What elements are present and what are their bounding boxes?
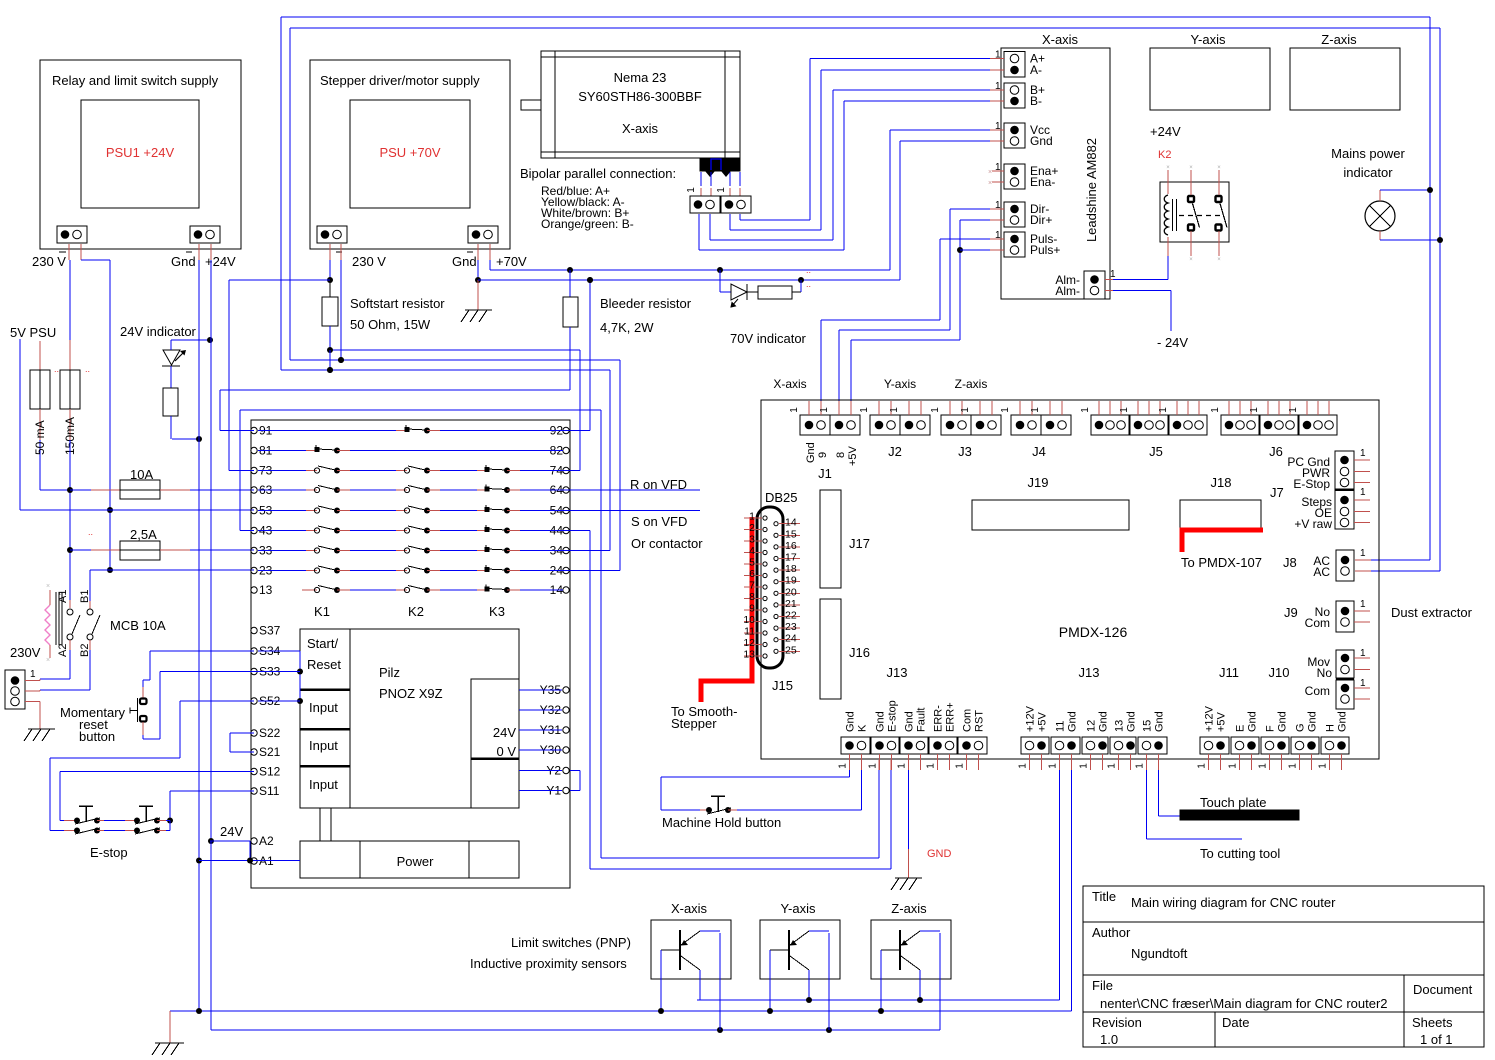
svg-text:Nema 23: Nema 23 [614, 70, 667, 85]
terminal Y32 [563, 707, 569, 713]
relay unit outer box [251, 420, 570, 888]
svg-text:20: 20 [785, 586, 797, 598]
wire fuse chain down [69, 440, 71, 600]
svg-text:1: 1 [1360, 648, 1366, 659]
wire motor B- to driver [698, 214, 700, 250]
svg-text:15: 15 [1142, 720, 1154, 732]
svg-text:25: 25 [785, 644, 797, 656]
svg-text:H: H [1325, 724, 1337, 732]
svg-text:230V: 230V [10, 645, 41, 660]
resistor 70V indicator [758, 286, 792, 299]
LED 24V indicator [163, 350, 180, 365]
wire collector rail +24V [210, 841, 212, 1030]
svg-text:×: × [1189, 257, 1193, 263]
terminal B+ [1010, 86, 1019, 95]
svg-text:1: 1 [686, 187, 697, 193]
svg-text:GND: GND [927, 848, 952, 860]
svg-text:Gnd: Gnd [1126, 711, 1138, 732]
svg-text:1: 1 [716, 187, 727, 193]
svg-text:J8: J8 [1283, 555, 1297, 570]
svg-text:1: 1 [1048, 763, 1059, 769]
wire 5VPSU to row53 [20, 509, 254, 511]
wire row23 right up [563, 570, 620, 572]
wire row91 left to bleeder net [219, 390, 221, 431]
connector J7 block [1335, 488, 1354, 491]
svg-text:Com: Com [1305, 684, 1330, 698]
svg-text:Gnd: Gnd [1277, 711, 1289, 732]
driver Leadshine AM882 box [1001, 48, 1110, 299]
svg-text:+70V: +70V [496, 254, 527, 269]
fuse 50mA [39, 341, 41, 370]
wire 230V top rail 1 [281, 16, 1430, 18]
svg-text:E-Stop: E-Stop [1293, 477, 1330, 491]
stub J1 pins [808, 401, 810, 415]
svg-text:J16: J16 [849, 645, 870, 660]
svg-text:ERR-: ERR- [933, 705, 945, 732]
svg-text:B2: B2 [79, 644, 91, 657]
connector J17 box [820, 490, 841, 588]
thick red cable to PMDX-107 [1182, 530, 1263, 552]
svg-text:11: 11 [744, 626, 755, 638]
svg-text:DB25: DB25 [765, 490, 798, 505]
connector J1b block [830, 415, 860, 435]
connector J2b block [900, 415, 930, 435]
sensor box X-axis [651, 920, 731, 979]
stub J3 pins [949, 401, 951, 415]
svg-text:Softstart resistor: Softstart resistor [350, 296, 445, 311]
svg-text:12: 12 [743, 637, 755, 649]
wire collector Y-axis [808, 970, 810, 1000]
MCB pole B [87, 609, 93, 615]
svg-text:Alm-: Alm- [1055, 284, 1080, 298]
connector J11 block H/Gnd [1321, 737, 1349, 754]
svg-text:J7: J7 [1270, 485, 1284, 500]
terminal PSU2 230V in [317, 226, 347, 243]
connector J9 block [1336, 601, 1354, 632]
svg-text:Gnd: Gnd [1098, 711, 1110, 732]
svg-text:Com: Com [962, 709, 974, 732]
svg-text:J5: J5 [1149, 444, 1163, 459]
terminal PSU2 70V out [468, 226, 498, 243]
terminal Ena- [1010, 178, 1019, 187]
svg-text:1: 1 [1158, 407, 1169, 413]
connector 3pin block [1299, 415, 1337, 435]
svg-text:24V indicator: 24V indicator [120, 324, 197, 339]
stepper motor Nema 23 X-axis [541, 51, 740, 158]
svg-text:Gnd: Gnd [1247, 711, 1259, 732]
wire collector Z-axis [919, 970, 921, 1000]
connector 3pin block [1260, 415, 1298, 435]
terminal driver block [1004, 83, 1025, 108]
connector 3pin block [1169, 415, 1207, 435]
E-stop chain bottom [50, 830, 64, 832]
svg-text:Ena-: Ena- [1030, 175, 1055, 189]
ground symbol bottom [155, 1042, 184, 1044]
svg-text:J13: J13 [887, 665, 908, 680]
svg-text:Gnd: Gnd [1154, 711, 1166, 732]
lamp mains power indicator [1365, 201, 1395, 231]
connector J3b block [971, 415, 1001, 435]
wire S22 S21 jumper [230, 732, 254, 734]
svg-text:Input: Input [309, 700, 338, 715]
relay K2 contact 1 [1188, 196, 1194, 202]
svg-text:230 V: 230 V [352, 254, 386, 269]
terminal B- [1010, 97, 1019, 106]
stub J4 pins [1019, 401, 1021, 415]
machine hold button [706, 807, 712, 813]
wire S34 line [150, 650, 254, 652]
svg-text:50 Ohm, 15W: 50 Ohm, 15W [350, 317, 431, 332]
wire 2,5A to row33 [190, 549, 254, 551]
svg-text:22: 22 [785, 610, 797, 622]
connector J13 block Gnd/K [841, 737, 870, 754]
svg-text:File: File [1092, 978, 1113, 993]
svg-text:Input: Input [309, 777, 338, 792]
connector J13 block 13/Gnd [1110, 737, 1136, 754]
svg-text:Dust extractor: Dust extractor [1391, 605, 1473, 620]
connector J13 block Gnd/Fault [900, 737, 928, 754]
stub J3b pins [979, 401, 981, 415]
terminal S34 [251, 648, 257, 654]
terminal Vcc [1010, 126, 1019, 135]
relay row 91-92 [251, 427, 257, 433]
svg-text:PSU +70V: PSU +70V [379, 145, 440, 160]
svg-text:K: K [857, 724, 869, 732]
svg-text:Document: Document [1413, 982, 1473, 997]
svg-text:×: × [46, 657, 50, 664]
connector J4 block [1011, 415, 1041, 435]
terminal S11 [251, 788, 257, 794]
svg-text:×: × [1217, 257, 1221, 263]
wire Dir- to BOB [990, 208, 1004, 210]
svg-text:S21: S21 [259, 745, 281, 759]
wire indicator return [172, 438, 199, 440]
svg-text:×: × [1189, 165, 1193, 171]
svg-text:2,5A: 2,5A [130, 527, 157, 542]
svg-text:4: 4 [749, 545, 755, 557]
wire row73 left [228, 280, 230, 471]
svg-text:J17: J17 [849, 536, 870, 551]
connector J16 box [820, 599, 841, 699]
wire AC feed bottom [1371, 570, 1440, 572]
svg-text:+5V: +5V [847, 445, 859, 466]
svg-text:1: 1 [1197, 763, 1208, 769]
connector J11 block +12V/+5V [1200, 737, 1229, 754]
wire S52 line [180, 700, 254, 702]
wire Vcc to +70V rail [990, 129, 1004, 131]
svg-text:1: 1 [30, 669, 36, 680]
wire row53 right S on VFD [563, 510, 700, 512]
svg-text:1: 1 [859, 407, 870, 413]
wire Y35 [519, 689, 562, 691]
thick red cable to SmoothStepper [701, 517, 752, 702]
svg-text:1: 1 [889, 407, 900, 413]
wire PSU1 Gnd rail down [198, 244, 200, 260]
relay row 13-14 [251, 587, 257, 593]
svg-text:K2: K2 [1158, 149, 1171, 161]
svg-text:+12V: +12V [1204, 705, 1216, 732]
connector J1 block [800, 415, 830, 435]
svg-text:..: .. [806, 265, 811, 275]
svg-text:To cutting tool: To cutting tool [1200, 846, 1280, 861]
driver Y-axis box [1150, 48, 1270, 110]
svg-text:1: 1 [1360, 678, 1366, 689]
wire Y32 [519, 709, 562, 711]
connector J13 block 12/Gnd [1082, 737, 1108, 754]
svg-text:Sheets: Sheets [1412, 1015, 1453, 1030]
connector J13 block +12V/+5V [1021, 737, 1049, 754]
svg-text:1: 1 [819, 407, 830, 413]
relay row 81-82 [251, 447, 257, 453]
svg-text:Gnd: Gnd [845, 711, 857, 732]
svg-text:+5V: +5V [1037, 711, 1049, 732]
svg-text:indicator: indicator [1343, 165, 1393, 180]
wire +70V rail [477, 244, 479, 260]
svg-text:Y-axis: Y-axis [1191, 32, 1226, 47]
svg-text:PNOZ X9Z: PNOZ X9Z [379, 686, 443, 701]
svg-text:S11: S11 [259, 784, 280, 798]
svg-text:2: 2 [749, 522, 755, 534]
svg-text:Leadshine AM882: Leadshine AM882 [1084, 138, 1099, 242]
svg-text:3: 3 [749, 534, 755, 546]
svg-text:G: G [1295, 723, 1307, 732]
svg-text:×: × [1166, 165, 1170, 171]
svg-text:PSU1 +24V: PSU1 +24V [106, 145, 175, 160]
svg-text:..: .. [806, 279, 811, 289]
svg-text:1: 1 [1210, 407, 1221, 413]
svg-text:SY60STH86-300BBF: SY60STH86-300BBF [578, 89, 702, 104]
wire Y2 [519, 770, 562, 772]
PMDX-126 board outline [761, 400, 1379, 759]
wire PSU1 +24V rail down [210, 260, 212, 841]
connector motor block1 [690, 196, 720, 213]
wire Alm- to -24V [1105, 290, 1113, 292]
connector J13 block 15/Gnd [1138, 737, 1167, 754]
svg-text:1: 1 [1360, 599, 1366, 610]
svg-text:PMDX-126: PMDX-126 [1059, 624, 1128, 640]
svg-text:S12: S12 [259, 765, 281, 779]
svg-text:Date: Date [1222, 1015, 1249, 1030]
svg-text:J11: J11 [1219, 665, 1239, 680]
svg-text:9: 9 [749, 603, 755, 615]
svg-text:1: 1 [1360, 487, 1366, 498]
wire left drop rail2 to y360 [289, 28, 291, 360]
svg-text:Puls+: Puls+ [1030, 243, 1060, 257]
terminal Gnd [1010, 137, 1019, 146]
svg-text:Start/: Start/ [307, 636, 338, 651]
wire PSU2 230V pole2 [340, 260, 342, 360]
terminal 230V input [5, 670, 25, 709]
connector J13 block 11/Gnd [1051, 737, 1080, 754]
relay row 43-44 [251, 527, 257, 533]
momentary reset button [142, 680, 144, 687]
svg-text:Gnd: Gnd [1030, 134, 1053, 148]
connector J3 block [941, 415, 971, 435]
svg-text:1: 1 [1110, 269, 1116, 280]
connector J8 AC block [1336, 550, 1354, 581]
svg-text:Gnd: Gnd [875, 711, 887, 732]
svg-text:16: 16 [785, 540, 797, 552]
svg-text:Bipolar parallel connection:: Bipolar parallel connection: [520, 166, 676, 181]
wire 230V pole2 to row23 [90, 569, 254, 571]
wire lamp top [1379, 190, 1381, 201]
connector J2 block [870, 415, 900, 435]
connector J13 block ERR-/ERR+ [929, 737, 957, 754]
resistor indicator [170, 366, 172, 388]
terminal Puls+ [1010, 246, 1019, 255]
Start/Reset cell [349, 629, 351, 808]
fuse 150mA [69, 340, 71, 370]
svg-text:+V raw: +V raw [1294, 517, 1332, 531]
svg-text:1: 1 [1288, 407, 1299, 413]
svg-text:0 V: 0 V [496, 744, 516, 759]
svg-text:A2: A2 [259, 834, 274, 848]
connector J19 box [972, 500, 1129, 530]
wire 5V PSU feed [19, 339, 21, 510]
svg-text:X-axis: X-axis [1042, 32, 1079, 47]
wire A2 feed [210, 840, 250, 842]
svg-text:11: 11 [1055, 721, 1067, 732]
svg-text:4,7K, 2W: 4,7K, 2W [600, 320, 654, 335]
svg-text:ERR+: ERR+ [945, 702, 957, 732]
svg-text:5: 5 [749, 557, 755, 569]
wire A1 feed [199, 860, 300, 862]
wire Dir+ Puls+ common to BOB [990, 219, 1004, 221]
svg-text:Machine Hold button: Machine Hold button [662, 815, 781, 830]
wire Gnd driver to 0V rail [990, 140, 1004, 142]
svg-text:1.0: 1.0 [1100, 1032, 1118, 1047]
MCB pole A [69, 600, 71, 608]
wire motor B+ to driver [709, 214, 711, 240]
svg-text:K2: K2 [408, 604, 424, 619]
svg-text:J6: J6 [1269, 444, 1283, 459]
svg-text:nenter\CNC fræser\Main diagram: nenter\CNC fræser\Main diagram for CNC r… [1100, 996, 1388, 1011]
wire base Z-axis [880, 950, 882, 1011]
svg-text:AC: AC [1313, 565, 1330, 579]
svg-text:1: 1 [1119, 407, 1130, 413]
sensor box Y-axis [760, 920, 840, 979]
svg-text:×: × [988, 180, 992, 187]
svg-text:..: .. [88, 527, 93, 537]
power supply PSU Stepper driver/motor supply [310, 60, 510, 249]
wire Estop Gnd to J13 [601, 857, 879, 859]
svg-text:Orange/green: B-: Orange/green: B- [541, 217, 634, 231]
wire right border drop to J8 AC [1429, 17, 1431, 560]
svg-text:- 24V: - 24V [1157, 335, 1188, 350]
svg-text:1: 1 [897, 763, 908, 769]
svg-text:Z-axis: Z-axis [891, 901, 927, 916]
wire Y31 [519, 729, 562, 731]
terminal S33 [251, 668, 257, 674]
svg-text:×: × [1217, 165, 1221, 171]
svg-text:J18: J18 [1211, 475, 1232, 490]
svg-text:Stepper driver/motor supply: Stepper driver/motor supply [320, 73, 480, 88]
wire B2 to terminal [89, 650, 91, 690]
svg-text:Gnd: Gnd [805, 442, 817, 463]
title block table [1083, 886, 1484, 1047]
svg-text:Inductive proximity sensors: Inductive proximity sensors [470, 956, 627, 971]
svg-text:To PMDX-107: To PMDX-107 [1181, 555, 1262, 570]
ground symbol mains [28, 728, 55, 730]
svg-text:24: 24 [785, 633, 797, 645]
svg-text:X-axis: X-axis [671, 901, 708, 916]
stub J4b pins [1049, 401, 1051, 415]
wire Gnd Fault to ground [908, 770, 910, 849]
svg-text:1: 1 [1258, 763, 1269, 769]
relay unit bottom terminals A2 A1 [251, 838, 257, 844]
terminal Y31 [563, 727, 569, 733]
svg-text:J19: J19 [1028, 475, 1049, 490]
svg-text:Gnd: Gnd [904, 711, 916, 732]
driver Z-axis box [1290, 48, 1400, 110]
wire row33 right up [563, 550, 610, 552]
svg-text:Bleeder resistor: Bleeder resistor [600, 296, 692, 311]
svg-text:J10: J10 [1269, 665, 1290, 680]
svg-text:S37: S37 [259, 624, 281, 638]
svg-text:×: × [988, 169, 992, 176]
connector 3pin block [1130, 415, 1168, 435]
terminal S52 [251, 698, 257, 704]
svg-text:S22: S22 [259, 726, 281, 740]
svg-text:S on VFD: S on VFD [631, 514, 687, 529]
wire emitter Y-axis [809, 930, 829, 932]
svg-text:J3: J3 [958, 444, 972, 459]
svg-text:No: No [1317, 666, 1333, 680]
terminal PSU1 24V out [190, 226, 220, 243]
svg-text:50 mA: 50 mA [33, 420, 47, 455]
wire row91 right up to 0V rail [563, 430, 590, 432]
wire Y30 [519, 749, 562, 751]
svg-text:button: button [79, 729, 115, 744]
wire row63 right R on VFD [563, 489, 700, 491]
svg-text:1: 1 [1030, 407, 1041, 413]
svg-text:1: 1 [1107, 763, 1118, 769]
wire bleeder drop [569, 327, 571, 390]
LED 70V indicator [719, 270, 721, 292]
terminal A+ [1010, 54, 1019, 63]
Pilz 24V cell [471, 679, 519, 808]
bleeder resistor 4,7K 2W [569, 270, 571, 297]
Pilz PNOZ X9Z box [300, 629, 519, 808]
terminal Y30 [563, 747, 569, 753]
svg-text:Main wiring diagram for CNC ro: Main wiring diagram for CNC router [1131, 895, 1336, 910]
wire 10A to row63 [190, 489, 254, 491]
Power box [300, 841, 519, 878]
relay row 33-34 [251, 547, 257, 553]
svg-text:J13: J13 [1079, 665, 1100, 680]
stub J2 pins [878, 401, 880, 415]
terminal driver block [1004, 164, 1025, 189]
svg-text:J15: J15 [772, 678, 793, 693]
wire Puls- to BOB [990, 238, 1004, 240]
connector J13 block Gnd/E-stop [871, 737, 899, 754]
terminal S22 [251, 730, 257, 736]
sensor box Z-axis [871, 920, 951, 979]
svg-text:..: .. [85, 364, 90, 374]
svg-text:E-stop: E-stop [887, 700, 899, 732]
wire indicator top [170, 340, 172, 350]
wire row73 right to softstart net [563, 470, 580, 472]
MCB coil [45, 605, 50, 645]
terminal driver block [1004, 123, 1025, 148]
svg-text:13: 13 [1114, 720, 1126, 732]
connector J13 block Com/RST [958, 737, 987, 754]
wire lamp bottom [1379, 231, 1381, 240]
connector J11 block F/Gnd [1261, 737, 1289, 754]
svg-text:1: 1 [930, 407, 941, 413]
wire y370 rail [281, 369, 610, 371]
wire collector X-axis [699, 970, 701, 1000]
